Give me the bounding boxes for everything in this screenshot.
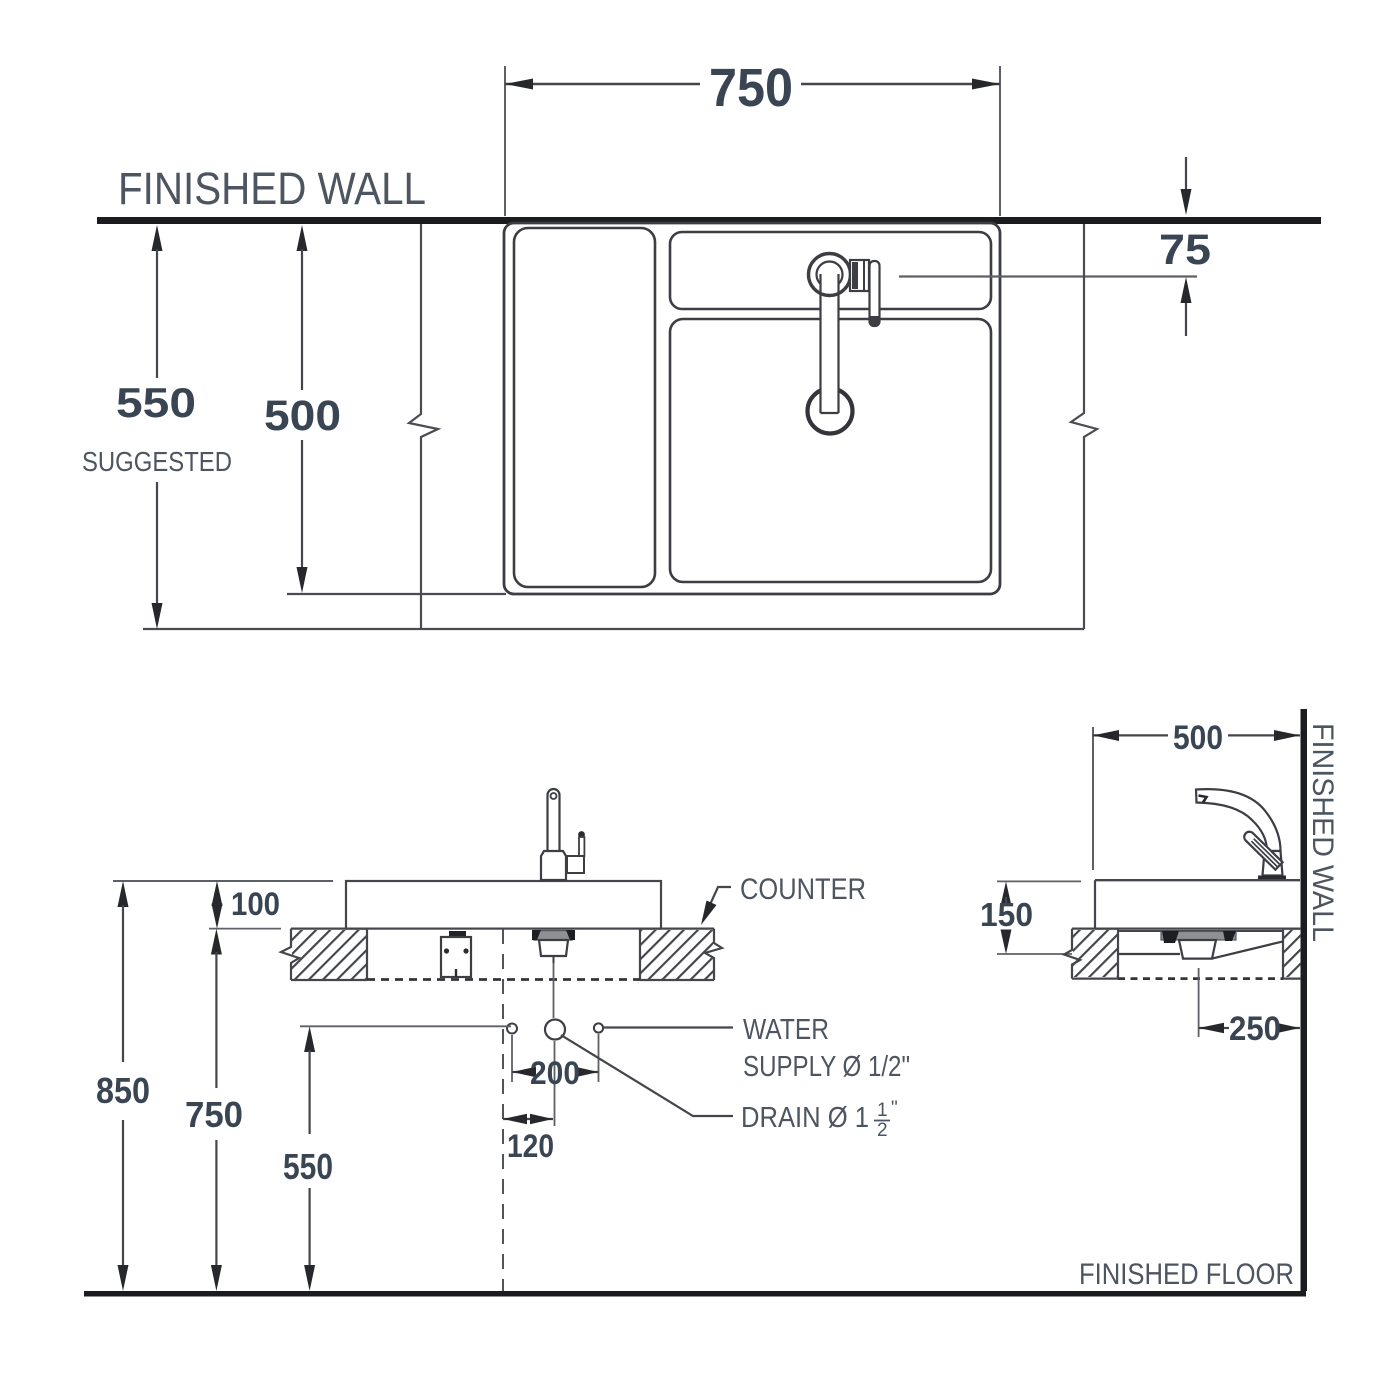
svg-text:SUPPLY Ø 1/2": SUPPLY Ø 1/2" bbox=[743, 1051, 910, 1083]
faucet (side view) spout bbox=[1196, 789, 1281, 851]
label WATER SUPPLY with leader bbox=[603, 1014, 910, 1083]
dimension text 250 (side) bbox=[1229, 1010, 1281, 1048]
dimension text 120 bbox=[507, 1128, 554, 1164]
faucet handle (side view) bbox=[1244, 832, 1282, 870]
label FINISHED WALL (side, vertical) bbox=[1306, 723, 1339, 942]
dimension text 100 bbox=[231, 886, 280, 922]
dimension 250 (side) bbox=[1199, 1023, 1300, 1033]
dimension text 550 bbox=[116, 379, 196, 426]
faucet spout (front elevation) bbox=[548, 789, 560, 851]
right bowl compartment (plan) bbox=[670, 319, 991, 582]
svg-text:120: 120 bbox=[507, 1128, 554, 1164]
svg-text:750: 750 bbox=[185, 1094, 243, 1135]
dimension 550 (elevation) bbox=[304, 1026, 315, 1291]
faucet spout tube (plan) bbox=[821, 290, 839, 414]
dimension 750 extension line left bbox=[504, 66, 506, 216]
dimension text 500 (plan) bbox=[264, 392, 341, 440]
dimension 150 (side) bbox=[1001, 881, 1012, 954]
svg-text:1: 1 bbox=[877, 1100, 888, 1121]
svg-text:200: 200 bbox=[530, 1055, 580, 1091]
water supply circle right bbox=[594, 1023, 603, 1032]
vertical dashed centerline (front) bbox=[502, 929, 504, 1291]
left hatched counter section (front) bbox=[281, 929, 367, 980]
dimension text 550 (elevation) bbox=[283, 1146, 333, 1187]
dimension text 500 (side) bbox=[1173, 719, 1223, 757]
svg-text:850: 850 bbox=[96, 1070, 150, 1111]
faucet body circle (plan) bbox=[809, 254, 851, 296]
dimension 850 (elevation) bbox=[118, 881, 129, 1291]
svg-text:SUGGESTED: SUGGESTED bbox=[82, 446, 232, 477]
faucet body (front elevation) bbox=[541, 851, 566, 880]
faucet handle lever (plan) bbox=[870, 261, 880, 326]
svg-text:COUNTER: COUNTER bbox=[740, 873, 866, 906]
counter (side view) bbox=[1095, 880, 1300, 928]
drain flange (side, grey) bbox=[1161, 931, 1236, 943]
right hatched counter section (side, at wall) bbox=[1283, 929, 1301, 979]
counter left edge (plan) with break bbox=[409, 224, 438, 629]
150 top extension line bbox=[997, 880, 1081, 882]
dimension 75 lower arrow bbox=[1181, 277, 1192, 336]
dimension 750 extension line right bbox=[999, 66, 1001, 216]
faucet handle (front elevation) bbox=[567, 831, 585, 873]
drain circle center bbox=[545, 1020, 565, 1040]
faucet handle block (plan) bbox=[850, 260, 869, 291]
counter front edge (plan) / 550 extension bbox=[143, 628, 1084, 630]
dimension 750 line and arrows bbox=[505, 79, 1000, 90]
dimension 200 bbox=[512, 1034, 599, 1082]
550 elevation extension line bbox=[300, 1025, 511, 1027]
dimension 550 suggested (plan) bbox=[152, 225, 163, 629]
dimension 500 (side) extension line bbox=[1092, 727, 1094, 870]
label FINISHED WALL (plan) bbox=[118, 163, 426, 214]
svg-text:FINISHED FLOOR: FINISHED FLOOR bbox=[1079, 1258, 1294, 1291]
150 bottom extension line bbox=[997, 953, 1072, 955]
sink outer rim (plan) bbox=[504, 223, 1000, 594]
dimension 500 (side) bbox=[1093, 730, 1300, 741]
dimension 500 (plan) bbox=[297, 225, 308, 593]
finished wall line (side, thick vertical) bbox=[1301, 709, 1308, 1291]
counter right edge (plan) with break bbox=[1071, 224, 1097, 629]
faucet body and base (side view) bbox=[1258, 851, 1286, 881]
svg-text:DRAIN Ø 1: DRAIN Ø 1 bbox=[741, 1102, 869, 1134]
faucet shank below counter (front elevation) bbox=[441, 931, 471, 977]
svg-text:75: 75 bbox=[1159, 226, 1211, 274]
counter top level extension line (left) bbox=[113, 880, 333, 882]
dashed underside line between sections (front) bbox=[367, 978, 640, 981]
left hatched counter section (side) bbox=[1064, 929, 1118, 979]
drain centerline (side) bbox=[1198, 968, 1200, 1037]
dashed underside line (side) bbox=[1118, 977, 1283, 980]
dimension 120 bbox=[503, 1114, 553, 1124]
finished wall line (plan, thick) bbox=[97, 217, 1321, 224]
label SUGGESTED bbox=[82, 446, 232, 477]
drain body (side) bbox=[1179, 940, 1216, 959]
left tray compartment (plan) bbox=[514, 228, 655, 587]
dimension text 750 (plan) bbox=[709, 58, 793, 118]
svg-text:550: 550 bbox=[116, 379, 196, 426]
svg-text:150: 150 bbox=[980, 896, 1033, 933]
svg-text:2: 2 bbox=[877, 1120, 888, 1141]
svg-text:750: 750 bbox=[709, 58, 793, 118]
dimension text 750 (elevation) bbox=[185, 1094, 243, 1135]
svg-text:100: 100 bbox=[231, 886, 280, 922]
svg-text:550: 550 bbox=[283, 1146, 333, 1187]
svg-text:": " bbox=[891, 1098, 898, 1119]
right hatched counter section (front) bbox=[640, 929, 722, 980]
dimension 75 upper arrow bbox=[1181, 157, 1192, 215]
basin section under counter (side) bbox=[1118, 931, 1283, 959]
water supply circle left bbox=[507, 1024, 517, 1034]
svg-text:500: 500 bbox=[1173, 719, 1223, 757]
dimension text 75 bbox=[1159, 226, 1211, 274]
sink bottom extension for 500 bbox=[287, 593, 506, 595]
label COUNTER with leader bbox=[701, 873, 866, 925]
svg-text:FINISHED WALL: FINISHED WALL bbox=[118, 163, 426, 214]
svg-text:FINISHED WALL: FINISHED WALL bbox=[1306, 723, 1339, 942]
drain fitting below counter (front elevation) bbox=[532, 930, 575, 963]
counter slab (front elevation) bbox=[346, 881, 661, 929]
drain centerline segments bbox=[554, 963, 555, 1126]
dimension 100 (counter thickness) bbox=[209, 881, 281, 929]
dimension 750 (elevation) bbox=[211, 929, 222, 1291]
right deck compartment (plan) bbox=[670, 232, 991, 309]
svg-text:500: 500 bbox=[264, 392, 341, 440]
dimension text 150 (side) bbox=[980, 896, 1033, 933]
label DRAIN with leader bbox=[561, 1035, 898, 1141]
leader line from faucet to 75 dimension bbox=[899, 275, 1197, 277]
dimension text 850 (elevation) bbox=[96, 1070, 150, 1111]
svg-text:WATER: WATER bbox=[743, 1014, 829, 1046]
finished floor line (thick) bbox=[84, 1291, 1306, 1297]
dimension text 200 bbox=[530, 1055, 580, 1091]
label FINISHED FLOOR bbox=[1079, 1258, 1294, 1291]
svg-text:250: 250 bbox=[1229, 1010, 1281, 1048]
spout outlet circle (plan) bbox=[808, 389, 853, 434]
